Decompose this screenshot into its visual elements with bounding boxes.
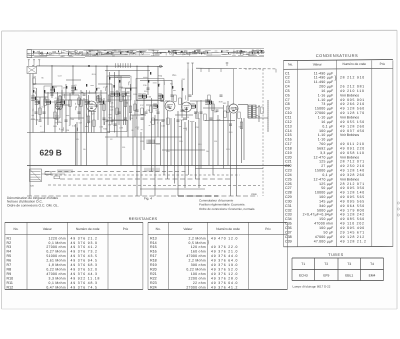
wire xyxy=(241,118,243,163)
svg-text:49 376 44.0: 49 376 44.0 xyxy=(211,254,238,258)
capacitor 20 xyxy=(43,111,46,113)
svg-text:49 095 490: 49 095 490 xyxy=(340,226,365,230)
loudspeaker xyxy=(256,106,260,108)
capacitor 21 xyxy=(78,111,81,113)
svg-text:15000 µµF: 15000 µµF xyxy=(315,107,334,111)
svg-text:629 B: 629 B xyxy=(40,147,62,157)
svg-text:Ordre de connexions: Économie,: Ordre de connexions: Économie, normale. xyxy=(199,207,255,211)
wire xyxy=(167,111,169,179)
svg-text:150 µµF: 150 µµF xyxy=(319,217,333,221)
wire xyxy=(57,92,59,125)
svg-text:1-10 µµF: 1-10 µµF xyxy=(318,133,334,137)
resistances table right frame xyxy=(148,221,287,223)
antenna terminal A2 xyxy=(33,60,35,63)
coil L8 xyxy=(191,103,195,105)
connector stubs xyxy=(32,74,195,131)
svg-text:R6: R6 xyxy=(7,259,12,263)
svg-text:390 ohm: 390 ohm xyxy=(191,263,206,267)
resistor box 8 xyxy=(124,100,127,107)
resistor box mains xyxy=(54,176,60,179)
resistor box 32 xyxy=(179,98,182,105)
wire xyxy=(212,101,214,175)
svg-text:27000 ohm: 27000 ohm xyxy=(186,285,206,289)
svg-text:296B: 296B xyxy=(251,193,257,196)
svg-text:C21: C21 xyxy=(285,160,292,164)
svg-text:760 µµF: 760 µµF xyxy=(319,142,333,146)
resistor box 5 xyxy=(80,100,83,107)
svg-text:C36: C36 xyxy=(285,226,292,230)
svg-text:0,1 Mohm: 0,1 Mohm xyxy=(49,241,66,245)
wire xyxy=(160,122,162,166)
wire xyxy=(88,95,90,133)
wire xyxy=(112,119,125,121)
wire xyxy=(130,114,146,116)
resistor box 19 xyxy=(87,116,90,123)
resistor box 33 xyxy=(238,112,241,119)
wire xyxy=(59,95,61,118)
svg-text:Voir Bobines: Voir Bobines xyxy=(340,93,359,97)
wire xyxy=(191,122,193,166)
resistor box 3 xyxy=(56,100,59,107)
svg-text:125 µµF: 125 µµF xyxy=(319,160,333,164)
svg-text:49 376 12.0: 49 376 12.0 xyxy=(211,272,238,276)
svg-text:49 128 260: 49 128 260 xyxy=(340,124,365,128)
wire xyxy=(95,66,97,101)
svg-text:0,1 µF: 0,1 µF xyxy=(322,124,333,128)
wire xyxy=(54,100,56,133)
svg-text:49 376 74.5: 49 376 74.5 xyxy=(71,285,98,289)
page right edge xyxy=(396,30,398,309)
coil L16 xyxy=(205,99,209,101)
svg-text:C16: C16 xyxy=(285,138,292,142)
svg-text:0,1 Mohm: 0,1 Mohm xyxy=(49,281,66,285)
fuse box xyxy=(45,172,51,175)
wire xyxy=(140,80,172,82)
resistor box 21 xyxy=(39,108,42,115)
resistor box 20 xyxy=(54,112,57,119)
dial lamp symbol xyxy=(226,62,228,66)
svg-text:49 376 04.0: 49 376 04.0 xyxy=(211,281,238,285)
resistor box 36 xyxy=(134,104,137,111)
svg-text:C31: C31 xyxy=(285,204,292,208)
svg-text:28 212 910: 28 212 910 xyxy=(340,76,365,80)
wire xyxy=(66,79,81,81)
svg-text:C24: C24 xyxy=(285,173,292,177)
wire xyxy=(175,114,193,116)
svg-text:120 ohm: 120 ohm xyxy=(191,245,206,249)
resistor box 35 xyxy=(93,120,96,127)
svg-text:49 058 110: 49 058 110 xyxy=(340,151,365,155)
pickup terminal T1 xyxy=(187,63,189,68)
svg-text:R4: R4 xyxy=(7,250,12,254)
svg-text:R14: R14 xyxy=(150,241,157,245)
wire xyxy=(192,68,194,95)
svg-text:16 µµF: 16 µµF xyxy=(321,120,333,124)
wire xyxy=(165,100,170,102)
component reference labels xyxy=(31,73,243,153)
svg-text:}: } xyxy=(335,76,337,82)
svg-text:Numéro de code: Numéro de code xyxy=(342,62,366,66)
wire xyxy=(97,95,99,120)
svg-text:C13: C13 xyxy=(285,124,292,128)
wire xyxy=(27,132,110,134)
wire xyxy=(258,105,260,122)
capacitor 36 xyxy=(229,123,232,125)
resistor box 17 xyxy=(120,95,123,102)
wire xyxy=(162,149,205,151)
svg-text:3,3 µµF: 3,3 µµF xyxy=(320,151,333,155)
capacitor 25 xyxy=(145,111,148,113)
wire xyxy=(195,122,197,179)
svg-text:29 145 671: 29 145 671 xyxy=(340,230,365,234)
svg-text:49 210 110: 49 210 110 xyxy=(340,89,365,93)
wire xyxy=(109,72,111,133)
svg-text:100 ohm: 100 ohm xyxy=(191,272,206,276)
antenna terminal A1 xyxy=(28,60,30,63)
wire xyxy=(186,107,188,120)
wire xyxy=(110,76,130,78)
svg-text:50 µµF: 50 µµF xyxy=(321,186,333,190)
resistor box 14 xyxy=(224,111,227,118)
wire xyxy=(223,105,225,169)
svg-text:R8: R8 xyxy=(7,268,12,272)
resistor box 23 xyxy=(196,112,199,119)
wire xyxy=(134,100,136,137)
svg-text:49 085 560: 49 085 560 xyxy=(340,217,365,221)
svg-text:R22: R22 xyxy=(150,276,157,280)
svg-text:Prix: Prix xyxy=(265,227,271,231)
svg-text:No.: No. xyxy=(13,227,18,231)
svg-text:49 376 21.2: 49 376 21.2 xyxy=(71,236,98,240)
coil L18 xyxy=(71,85,75,87)
svg-text:0,22 Mohm: 0,22 Mohm xyxy=(186,268,206,272)
resistor box 26 xyxy=(208,95,211,102)
wire xyxy=(125,88,127,125)
svg-text:2,61 Mohm: 2,61 Mohm xyxy=(46,259,66,263)
coil L5 xyxy=(115,91,119,93)
tube plate wire xyxy=(233,69,235,104)
svg-text:49 376 73.2: 49 376 73.2 xyxy=(71,250,98,254)
svg-text:1,8 Mohm: 1,8 Mohm xyxy=(49,263,66,267)
capacitor 3 xyxy=(72,91,75,93)
svg-text:C22: C22 xyxy=(285,164,292,168)
switch wire dashed xyxy=(48,184,260,187)
svg-text:2,2 Mohm: 2,2 Mohm xyxy=(189,259,206,263)
resistor box 1 xyxy=(33,78,36,85)
capacitor 33 xyxy=(35,111,38,113)
wire xyxy=(198,118,200,188)
svg-text:49 011 210: 49 011 210 xyxy=(340,142,365,146)
resistor box 9 xyxy=(129,106,132,113)
coil L12 xyxy=(110,91,114,93)
page left edge xyxy=(1,31,3,309)
svg-text:160 ohm: 160 ohm xyxy=(191,250,206,254)
svg-text:47000 ohm: 47000 ohm xyxy=(46,272,66,276)
capacitor 22 xyxy=(103,117,106,119)
wire xyxy=(110,75,130,77)
pickup terminal T2 xyxy=(192,63,194,68)
resistor box 7 xyxy=(103,104,106,111)
svg-text:R18: R18 xyxy=(150,259,157,263)
resistor box 18 xyxy=(108,95,111,102)
svg-text:C32: C32 xyxy=(285,208,292,212)
page top edge xyxy=(2,29,397,32)
svg-text:C4: C4 xyxy=(285,85,290,89)
svg-text:49 128 242: 49 128 242 xyxy=(340,213,365,217)
coil L4 xyxy=(85,99,89,101)
capacitor 1 xyxy=(39,119,42,121)
svg-text:C35: C35 xyxy=(285,222,292,226)
bus tick xyxy=(208,68,210,72)
capacitor 8 xyxy=(136,109,139,111)
wire xyxy=(181,120,183,166)
wire xyxy=(140,132,142,196)
coil L13 xyxy=(122,91,126,93)
svg-text:27 µµF: 27 µµF xyxy=(321,164,333,168)
svg-text:C12: C12 xyxy=(285,120,292,124)
svg-text:49 376 21.0: 49 376 21.0 xyxy=(211,250,238,254)
HT supply bus right segment xyxy=(196,67,234,69)
svg-text:R9: R9 xyxy=(7,272,12,276)
svg-text:49 128 560: 49 128 560 xyxy=(340,107,365,111)
svg-text:3,3 Mohm: 3,3 Mohm xyxy=(49,276,66,280)
wire xyxy=(147,66,149,95)
svg-text:49 376 93.0: 49 376 93.0 xyxy=(71,241,98,245)
capacitor 16 xyxy=(220,94,223,96)
HT supply bus wire xyxy=(37,65,164,67)
switch wire dashed xyxy=(45,171,188,173)
svg-text:49 376 43.5: 49 376 43.5 xyxy=(71,254,98,258)
svg-text:Fig. 4: Fig. 4 xyxy=(144,196,152,200)
svg-text:R2: R2 xyxy=(7,241,12,245)
wire xyxy=(132,115,134,166)
svg-text:R13: R13 xyxy=(150,236,157,240)
wire xyxy=(36,88,38,125)
chassis bus wire xyxy=(27,165,290,167)
svg-text:49 376 52.0: 49 376 52.0 xyxy=(211,268,238,272)
resistor box 34 xyxy=(152,118,155,125)
svg-text:C23: C23 xyxy=(285,169,292,173)
wire xyxy=(88,110,96,112)
resistor box 28 xyxy=(78,98,81,105)
svg-text:C14: C14 xyxy=(285,129,292,133)
wire xyxy=(205,120,235,122)
capacitor 27 xyxy=(167,105,170,107)
resistor box 31 xyxy=(141,108,144,115)
wire xyxy=(170,118,172,166)
svg-text:C28: C28 xyxy=(285,191,292,195)
svg-text:0,22 Mohm: 0,22 Mohm xyxy=(46,268,66,272)
coil L7 xyxy=(153,103,157,105)
svg-text:49 128 140: 49 128 140 xyxy=(340,191,365,195)
wire xyxy=(91,111,93,133)
thick dash segment xyxy=(178,195,218,197)
wire xyxy=(187,68,189,101)
svg-text:EF9: EF9 xyxy=(323,274,329,278)
resistor box 29 xyxy=(97,96,100,103)
svg-text:No.: No. xyxy=(288,63,293,67)
svg-text:R24: R24 xyxy=(150,285,157,289)
tube V4 xyxy=(229,104,238,113)
wire xyxy=(188,120,190,175)
terminal lead wires xyxy=(28,63,30,67)
wire xyxy=(123,95,125,125)
svg-text:49 376 44.3: 49 376 44.3 xyxy=(71,272,98,276)
svg-text:R12: R12 xyxy=(7,285,14,289)
wire xyxy=(118,70,120,125)
wire xyxy=(44,90,46,133)
capacitor 4 xyxy=(83,93,86,95)
svg-text:49 376 41.2: 49 376 41.2 xyxy=(211,285,238,289)
wire xyxy=(127,95,129,137)
wire xyxy=(80,90,82,166)
svg-text:R11: R11 xyxy=(7,281,13,285)
capacitor 5 xyxy=(95,104,98,106)
svg-text:2200 ohm: 2200 ohm xyxy=(189,276,206,280)
wire xyxy=(208,104,210,166)
bus tick xyxy=(200,68,202,72)
svg-text:T4: T4 xyxy=(370,262,374,266)
wire xyxy=(120,76,122,166)
wire xyxy=(174,118,176,184)
svg-text:R17: R17 xyxy=(150,254,157,258)
wire xyxy=(190,100,210,102)
svg-text:49 179 800: 49 179 800 xyxy=(340,208,365,212)
svg-text:2×0,47µF=0,94µF: 2×0,47µF=0,94µF xyxy=(303,213,334,217)
svg-text:EM4: EM4 xyxy=(369,274,376,278)
svg-text:C33: C33 xyxy=(285,213,292,217)
wire xyxy=(200,100,202,169)
wire xyxy=(76,122,78,166)
bus tail tick xyxy=(275,69,277,73)
svg-text:R1: R1 xyxy=(7,236,12,240)
earth terminal E xyxy=(38,60,40,63)
svg-text:C30: C30 xyxy=(285,199,292,203)
svg-text:16 µµF: 16 µµF xyxy=(321,89,333,93)
switch contact bank mid xyxy=(147,140,161,144)
svg-text:C1: C1 xyxy=(285,71,290,75)
coil L11 xyxy=(99,99,103,101)
oscillator coil frame xyxy=(44,86,62,102)
svg-text:49 128 212: 49 128 212 xyxy=(340,235,365,239)
capacitor 17 xyxy=(235,107,238,109)
svg-text:100 µµF: 100 µµF xyxy=(319,226,333,230)
svg-text:C26: C26 xyxy=(285,182,292,186)
svg-text:47000 ohm: 47000 ohm xyxy=(314,222,333,226)
svg-text:Voir Bobines: Voir Bobines xyxy=(340,155,359,159)
wire xyxy=(217,115,219,166)
svg-text:145 µµF: 145 µµF xyxy=(319,199,333,203)
wire xyxy=(151,119,165,121)
svg-text:26 212 081: 26 212 081 xyxy=(340,85,365,89)
wire xyxy=(103,98,105,125)
svg-text:C2: C2 xyxy=(285,76,290,80)
svg-text:49 128 140: 49 128 140 xyxy=(340,169,365,173)
tube V5 xyxy=(55,102,63,110)
capacitor 14 xyxy=(200,111,203,113)
coil L15 xyxy=(158,93,162,95)
svg-text:R20: R20 xyxy=(150,268,157,272)
IF transformer frame 2 xyxy=(136,79,164,101)
svg-text:Prix: Prix xyxy=(123,227,129,231)
wire xyxy=(88,92,107,94)
wire xyxy=(44,92,96,94)
svg-text:49 095 350: 49 095 350 xyxy=(340,186,365,190)
svg-text:49 376 68.3: 49 376 68.3 xyxy=(71,263,98,267)
svg-text:C3: C3 xyxy=(285,80,290,84)
wire xyxy=(196,101,198,118)
wire xyxy=(171,80,173,101)
svg-text:27000 ohm: 27000 ohm xyxy=(46,245,66,249)
svg-text:Numéro de code: Numéro de code xyxy=(216,227,240,231)
coil L9 xyxy=(207,99,211,101)
capacitor 34 xyxy=(114,123,117,125)
wire xyxy=(29,74,31,197)
svg-text:C29: C29 xyxy=(285,195,292,199)
wire xyxy=(62,94,79,96)
wire xyxy=(105,136,182,138)
capacitor 10 xyxy=(157,111,160,113)
svg-text:28 712 071: 28 712 071 xyxy=(340,160,365,164)
svg-text:C18: C18 xyxy=(285,146,292,150)
svg-text:Voir Bobines: Voir Bobines xyxy=(340,133,359,137)
wire xyxy=(100,90,102,133)
resistor box 13 xyxy=(212,104,215,111)
svg-text:49 110 202: 49 110 202 xyxy=(340,222,365,226)
wire xyxy=(136,100,164,102)
svg-text:22 ohm: 22 ohm xyxy=(193,281,206,285)
svg-text:5692 µµF: 5692 µµF xyxy=(317,146,333,150)
resistor box 24 xyxy=(227,106,230,113)
capacitor 19 xyxy=(106,119,109,121)
svg-text:C37: C37 xyxy=(285,230,292,234)
wire xyxy=(157,66,159,137)
resistor box 27 xyxy=(59,96,62,103)
wire xyxy=(143,95,145,150)
svg-text:C17: C17 xyxy=(285,142,292,146)
wire xyxy=(130,84,132,120)
svg-text:C8: C8 xyxy=(285,102,290,106)
resistor box 22 xyxy=(150,106,153,113)
wire xyxy=(98,83,112,85)
svg-text:5000 µµF: 5000 µµF xyxy=(317,208,333,212)
IF transformer frame 1 xyxy=(107,76,131,100)
wire xyxy=(72,66,74,95)
coil L3 xyxy=(60,99,64,101)
wire xyxy=(42,173,66,175)
svg-text:49 376 19.0: 49 376 19.0 xyxy=(211,263,238,267)
wire xyxy=(163,101,165,175)
wire xyxy=(267,100,269,132)
tube V3 xyxy=(182,102,192,112)
capacitor 13 xyxy=(189,94,192,96)
svg-text:Prix: Prix xyxy=(380,62,386,66)
coil L1 xyxy=(31,95,35,97)
coil L2 xyxy=(46,99,50,101)
coil L17 xyxy=(50,87,54,89)
svg-text:49 091 220: 49 091 220 xyxy=(340,146,365,150)
wire xyxy=(93,111,95,133)
capacitor 26 xyxy=(162,119,165,121)
svg-text:49 095 565: 49 095 565 xyxy=(340,199,365,203)
svg-text:49 055 150: 49 055 150 xyxy=(340,120,365,124)
bus contact ticks xyxy=(116,63,131,68)
resistances table left frame xyxy=(5,221,143,223)
resistor box 4 xyxy=(69,100,72,107)
svg-text:73 µµF: 73 µµF xyxy=(321,102,333,106)
dashed bottom wire xyxy=(27,195,258,197)
capacitor 31 xyxy=(210,117,213,119)
